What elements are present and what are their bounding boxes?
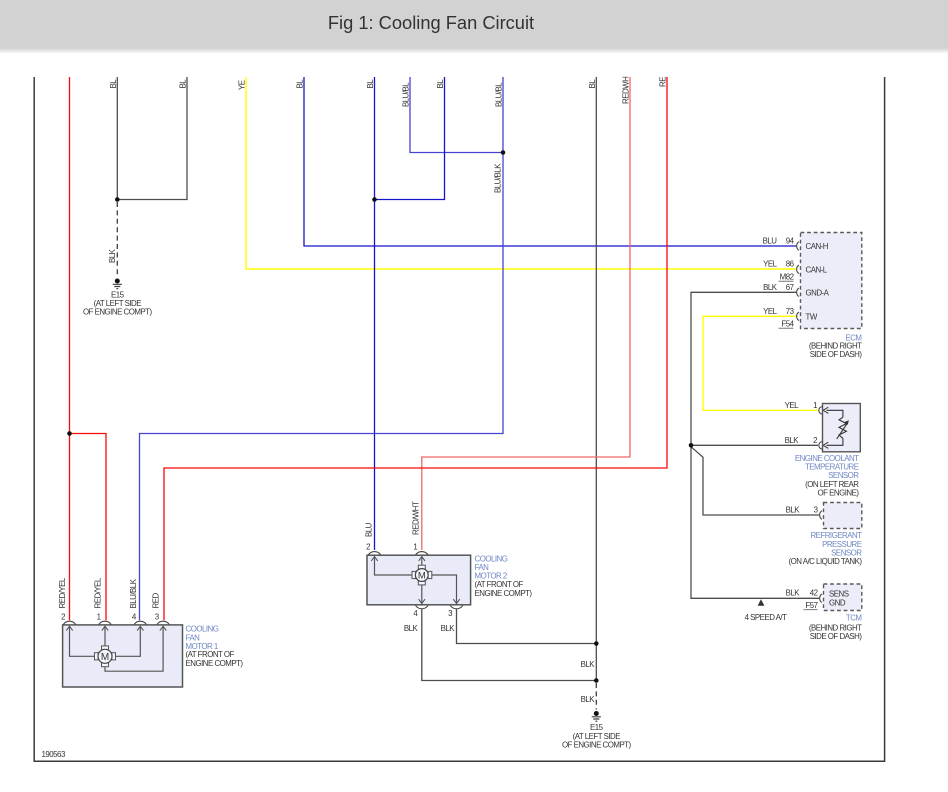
wire BLK second vertical — [117, 77, 187, 200]
node junction BLU/BLK — [501, 150, 506, 155]
ground E15 bottom — [562, 711, 632, 750]
svg-text:67: 67 — [786, 283, 794, 292]
svg-text:2: 2 — [366, 543, 370, 552]
engine coolant temperature sensor box — [823, 404, 861, 452]
svg-text:REFRIGERANT: REFRIGERANT — [810, 531, 862, 540]
svg-text:ENGINE COMPT): ENGINE COMPT) — [186, 659, 244, 668]
svg-text:2: 2 — [813, 436, 817, 445]
svg-text:BL: BL — [296, 79, 305, 89]
ECT sensor label — [795, 454, 859, 498]
svg-text:ENGINE COOLANT: ENGINE COOLANT — [795, 454, 859, 463]
wire YEL ECM TW to ECT sensor — [703, 316, 818, 410]
svg-text:2: 2 — [61, 613, 65, 622]
svg-text:(ON A/C LIQUID TANK): (ON A/C LIQUID TANK) — [788, 557, 862, 566]
svg-text:OF ENGINE COMPT): OF ENGINE COMPT) — [83, 308, 153, 317]
svg-text:REDWH: REDWH — [622, 76, 631, 104]
motor2 pin 3 — [432, 575, 463, 633]
svg-text:BLK: BLK — [763, 283, 778, 292]
svg-text:COOLING: COOLING — [475, 554, 508, 563]
svg-text:BLK: BLK — [785, 436, 800, 445]
node junction BLK — [115, 197, 120, 202]
svg-text:(AT FRONT OF: (AT FRONT OF — [186, 650, 235, 659]
node junction BLK lower — [594, 678, 599, 683]
svg-text:BLK: BLK — [404, 624, 419, 633]
svg-text:CAN-H: CAN-H — [806, 242, 829, 251]
motor1 M symbol — [95, 646, 116, 667]
label RED/YEL motor1 pin1 — [94, 577, 103, 608]
motor1 pin 2 — [61, 613, 94, 657]
svg-text:BLK: BLK — [581, 695, 596, 704]
svg-text:BLU/BLK: BLU/BLK — [494, 163, 503, 193]
svg-text:190563: 190563 — [42, 750, 66, 759]
ECT sensor pin 1 — [785, 401, 829, 414]
ECM pin 73 TW — [763, 307, 818, 329]
wire BLK motor ground vertical — [595, 77, 597, 710]
svg-text:RED: RED — [152, 593, 161, 609]
refrigerant pressure sensor box — [824, 503, 862, 529]
wire BLK to ground E15 left — [116, 77, 118, 277]
label BLK dashed left — [108, 248, 117, 263]
svg-text:BLK: BLK — [441, 624, 456, 633]
ground E15 left — [83, 279, 153, 317]
motor2 pin 1 — [413, 543, 428, 566]
svg-text:M82: M82 — [780, 273, 794, 282]
svg-text:BLK: BLK — [581, 660, 596, 669]
svg-text:(BEHIND RIGHT: (BEHIND RIGHT — [809, 342, 862, 351]
svg-text:1: 1 — [413, 543, 417, 552]
TCM label — [809, 613, 863, 641]
wire BLK ECM GND-A net — [691, 292, 819, 598]
label BL wire 374 — [366, 79, 375, 89]
svg-text:CAN-L: CAN-L — [806, 265, 828, 274]
svg-text:73: 73 — [786, 307, 795, 316]
ECM connector box — [801, 233, 862, 329]
label BLU/BLK motor1 pin4 — [129, 578, 138, 608]
svg-text:BLU: BLU — [763, 237, 778, 246]
svg-text:YEL: YEL — [785, 401, 800, 410]
wire RED to motor1 pin 3 — [164, 77, 667, 620]
svg-text:SENS: SENS — [829, 590, 849, 599]
label YE wire 246 — [238, 80, 247, 90]
svg-text:OF ENGINE COMPT): OF ENGINE COMPT) — [562, 741, 632, 750]
svg-text:E15: E15 — [590, 723, 604, 732]
arrow 4 SPEED A/T — [745, 599, 788, 622]
svg-text:SIDE OF DASH): SIDE OF DASH) — [810, 350, 863, 359]
node junction BLU — [372, 197, 377, 202]
svg-text:(AT FRONT OF: (AT FRONT OF — [475, 580, 524, 589]
svg-text:BLU/BL: BLU/BL — [402, 82, 411, 107]
svg-text:PRESSURE: PRESSURE — [822, 540, 862, 549]
svg-text:TCM: TCM — [846, 613, 862, 622]
label RED/YEL motor1 pin2 — [58, 577, 67, 608]
cooling fan motor 2 label — [475, 554, 533, 598]
label RED/WHT motor2 pin1 — [412, 501, 421, 535]
svg-text:TW: TW — [806, 312, 818, 321]
svg-text:M: M — [418, 570, 426, 581]
svg-text:BLU/BL: BLU/BL — [495, 82, 504, 107]
wire BLU to ECM CAN-H — [304, 77, 796, 246]
wire BLU branch — [375, 77, 445, 200]
svg-text:1: 1 — [813, 401, 817, 410]
node junction BLK upper — [594, 641, 599, 646]
svg-text:86: 86 — [786, 260, 795, 269]
ECM pin 86 CAN-L — [763, 260, 828, 282]
svg-text:OF ENGINE): OF ENGINE) — [817, 489, 859, 498]
label BL wire 444 — [436, 79, 445, 89]
ECM pin 67 GND-A — [763, 283, 830, 298]
svg-text:BLK: BLK — [786, 589, 801, 598]
motor2 pin 4 — [404, 585, 428, 633]
wire BLK motor2 pin 4 — [422, 609, 597, 680]
svg-text:BLK: BLK — [786, 506, 801, 515]
motor1 pin 3 — [105, 613, 169, 672]
svg-text:BL: BL — [109, 79, 118, 89]
wire RED branch to motor1 pin 1 — [70, 434, 107, 621]
svg-text:M: M — [101, 652, 109, 663]
svg-text:SIDE OF DASH): SIDE OF DASH) — [810, 632, 863, 641]
svg-text:BL: BL — [436, 79, 445, 89]
label BL wire 117 — [109, 79, 118, 89]
label BL wire 596 — [588, 79, 597, 89]
svg-text:1: 1 — [97, 613, 101, 622]
svg-text:BLK: BLK — [108, 248, 117, 263]
TCM connector box — [824, 584, 862, 611]
ECM label — [809, 333, 863, 359]
ECM pin 94 CAN-H — [763, 237, 829, 252]
wire BLK motor2 pin 3 — [457, 609, 597, 643]
motor1 pin 1 — [97, 613, 112, 647]
label REDWH wire 630 — [622, 76, 631, 104]
motor1 pin 4 — [116, 613, 147, 657]
svg-text:YE: YE — [238, 80, 247, 90]
label BLU/BLK mid — [494, 163, 503, 193]
label BLK near junction lower — [581, 695, 596, 704]
svg-text:Fig 1: Cooling Fan Circuit: Fig 1: Cooling Fan Circuit — [328, 12, 534, 33]
svg-text:42: 42 — [810, 589, 818, 598]
svg-text:RED/WHT: RED/WHT — [412, 501, 421, 535]
wire YEL to ECM CAN-L — [246, 77, 796, 269]
label BLU motor2 pin2 — [364, 522, 373, 537]
refrigerant sensor label — [788, 531, 862, 566]
svg-text:COOLING: COOLING — [186, 624, 219, 633]
svg-text:94: 94 — [786, 237, 795, 246]
svg-text:YEL: YEL — [763, 260, 778, 269]
svg-text:RED/YEL: RED/YEL — [58, 577, 67, 608]
wire BLU/BLK to motor1 pin 4 — [140, 77, 504, 620]
ECT sensor pin 2 — [785, 436, 829, 449]
node junction RED — [67, 431, 72, 436]
svg-text:GND: GND — [829, 598, 846, 607]
svg-text:GND-A: GND-A — [806, 288, 830, 297]
motor2 pin 2 — [366, 543, 412, 576]
svg-text:RE: RE — [659, 77, 668, 87]
thermistor element — [837, 417, 849, 439]
cooling fan motor 1 label — [186, 624, 244, 668]
node junction BLK sensor ground — [689, 443, 694, 448]
svg-text:BLU: BLU — [364, 522, 373, 537]
label BLU/BL wire 410 — [402, 82, 411, 107]
svg-text:BL: BL — [588, 79, 597, 89]
wire BLU to motor2 pin 2 — [374, 77, 376, 550]
cooling fan motor 2 box — [367, 555, 471, 605]
svg-text:F54: F54 — [781, 320, 794, 329]
svg-text:F57: F57 — [805, 601, 817, 610]
label RE wire 667 — [659, 77, 668, 87]
svg-text:BL: BL — [179, 79, 188, 89]
svg-text:SENSOR: SENSOR — [828, 471, 859, 480]
svg-text:4 SPEED A/T: 4 SPEED A/T — [745, 613, 788, 622]
wire RED/WHT to motor2 pin 1 — [422, 77, 630, 550]
label BL wire 304 — [296, 79, 305, 89]
label RED motor1 pin3 — [152, 593, 161, 609]
label BLU/BL wire 503 — [495, 82, 504, 107]
wire BLU/BLK upper branch — [410, 77, 503, 153]
motor2 M symbol — [412, 565, 432, 585]
svg-text:YEL: YEL — [763, 307, 778, 316]
svg-text:RED/YEL: RED/YEL — [94, 577, 103, 608]
svg-text:(ON LEFT REAR: (ON LEFT REAR — [805, 480, 859, 489]
TCM pin 42 SENS GND — [786, 589, 849, 611]
refrigerant sensor pin 3 — [786, 506, 822, 520]
svg-text:BLU/BLK: BLU/BLK — [129, 578, 138, 608]
wire RED left vertical — [69, 77, 71, 620]
label BL wire 187 — [179, 79, 188, 89]
cooling fan motor 1 box — [63, 625, 183, 687]
label BLK near junction upper — [581, 660, 596, 669]
svg-text:BL: BL — [366, 79, 375, 89]
svg-text:ENGINE COMPT): ENGINE COMPT) — [475, 589, 533, 598]
